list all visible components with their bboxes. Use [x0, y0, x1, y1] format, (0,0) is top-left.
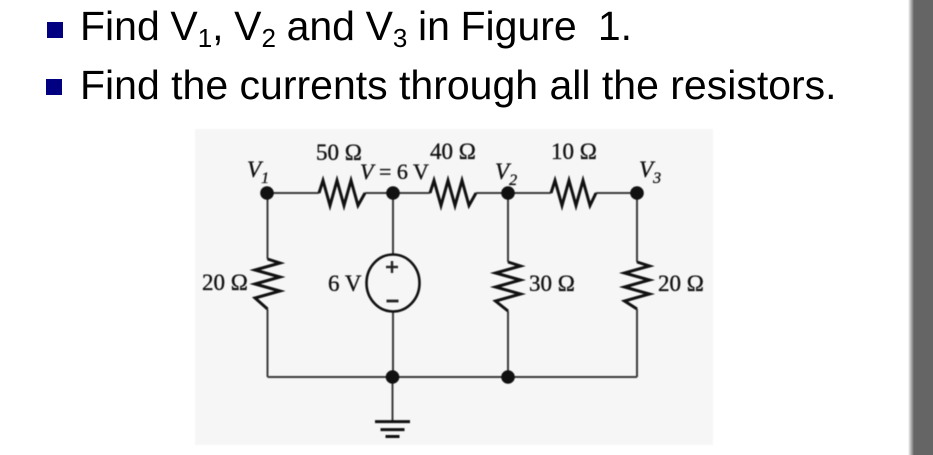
- minus sign: [387, 300, 399, 303]
- wire: 50ohm to mid node: [365, 192, 393, 194]
- bullet text line 2: [80, 65, 837, 106]
- svg-text:50 Ω: 50 Ω: [316, 140, 362, 165]
- svg-text:10 Ω: 10 Ω: [551, 139, 597, 164]
- bullet text line 1: [80, 6, 632, 52]
- node dot V1: [260, 186, 274, 200]
- wire: source branch lower: [392, 311, 394, 377]
- node dot bottom mid: [386, 370, 400, 384]
- plus sign: [386, 261, 398, 273]
- wire: 40ohm to V2 node: [476, 192, 508, 194]
- svg-text:40 Ω: 40 Ω: [430, 139, 476, 164]
- svg-text:V = 6 V: V = 6 V: [360, 159, 429, 184]
- circuit figure: [195, 129, 713, 445]
- wire: left branch upper: [267, 193, 269, 259]
- node dot bottom V2: [501, 370, 515, 384]
- svg-text:6 V: 6 V: [328, 271, 362, 296]
- wire: top left V1 to 50ohm: [267, 192, 319, 194]
- figure background: [195, 129, 713, 445]
- wire: source branch upper: [392, 193, 394, 255]
- labels: [202, 139, 704, 296]
- resistor 20ohm left vertical: [255, 259, 280, 309]
- node dot V3: [630, 186, 644, 200]
- wire: mid node to 40ohm: [393, 192, 430, 194]
- node dot V2: [501, 186, 515, 200]
- node dot mid: [386, 186, 400, 200]
- resistor 10ohm: [551, 181, 596, 206]
- svg-text:20 Ω: 20 Ω: [658, 271, 704, 296]
- wire: V3 branch upper: [636, 193, 638, 262]
- bullet square 2: [46, 79, 62, 95]
- resistor 50ohm: [319, 181, 365, 206]
- ground bars: [375, 422, 410, 437]
- wire: left branch lower: [267, 309, 269, 377]
- wire: V2 node to 10ohm: [508, 192, 551, 194]
- svg-text:20 Ω: 20 Ω: [202, 270, 248, 295]
- bullet square 1: [47, 22, 63, 38]
- voltage source 6V circle: [367, 255, 420, 312]
- resistor 30ohm vertical: [496, 262, 521, 311]
- resistor 40ohm: [430, 181, 476, 206]
- svg-text:30 Ω: 30 Ω: [529, 271, 575, 296]
- wire: 10ohm to V3 node: [596, 192, 637, 194]
- wire: V2 branch upper: [507, 193, 509, 262]
- wire: V3 branch lower: [636, 309, 638, 377]
- wire: bottom rail: [268, 376, 638, 378]
- wire: V2 branch lower: [507, 311, 509, 377]
- resistor 20ohm right vertical: [625, 262, 650, 309]
- scrollbar: [908, 0, 933, 455]
- wire: ground stem: [392, 377, 394, 421]
